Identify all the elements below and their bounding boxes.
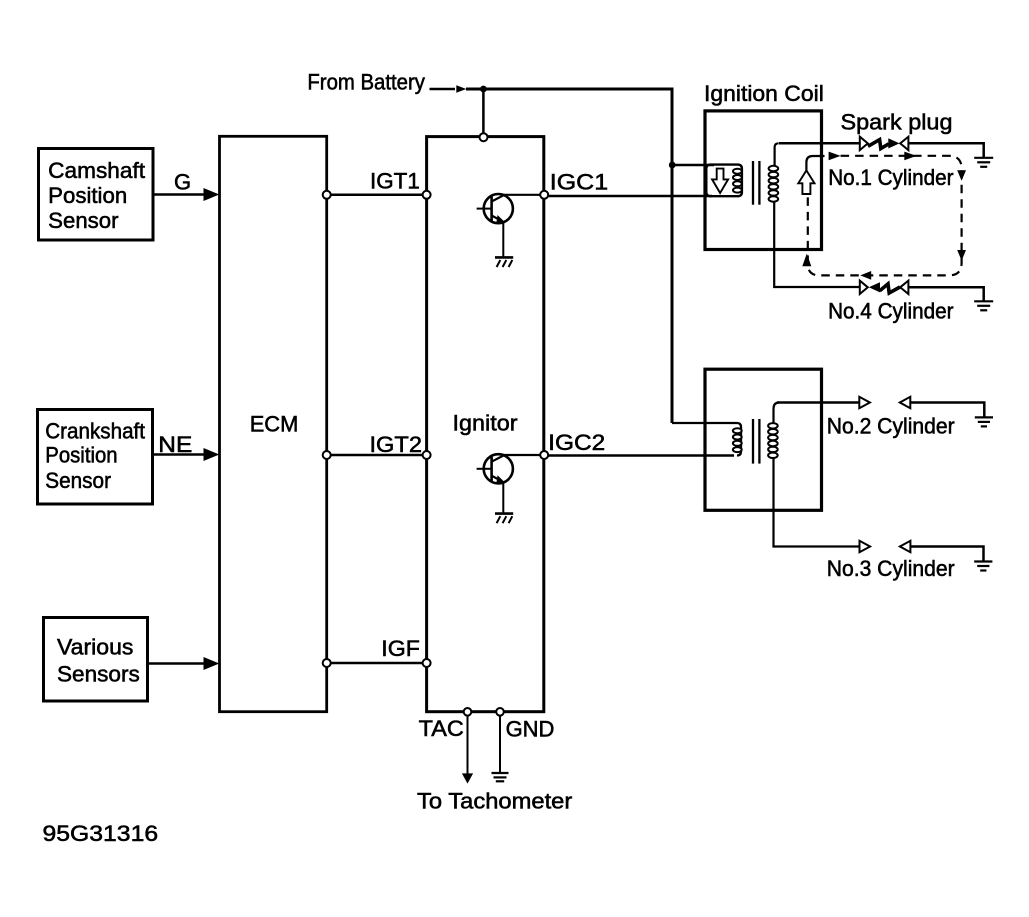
Ignitor box U2 <box>427 137 544 712</box>
svg-text:Sensor: Sensor <box>45 468 111 493</box>
Crankshaft Position Sensor label <box>45 418 145 493</box>
svg-text:IGC1: IGC1 <box>550 169 608 194</box>
wire no.2 to ground <box>910 403 984 418</box>
arrowhead into ECM (NE) <box>204 448 220 461</box>
TAC label <box>419 716 464 741</box>
wire battery feed top <box>466 89 672 423</box>
terminal GND <box>496 708 504 716</box>
IGC2 label <box>548 430 605 455</box>
wire GND <box>499 716 501 773</box>
terminal TAC <box>464 708 472 716</box>
coil1 secondary winding <box>774 143 860 287</box>
coil2 secondary winding <box>774 403 860 547</box>
Various Sensors box <box>44 618 148 702</box>
terminal ECM IGT2 <box>323 451 331 459</box>
transformer core T2 <box>752 419 754 464</box>
svg-text:Camshaft: Camshaft <box>48 158 145 183</box>
svg-text:Sensor: Sensor <box>48 208 118 233</box>
arrowhead loop bottom left <box>860 271 871 280</box>
terminal ECM IGT1 <box>323 191 331 199</box>
coil1 primary winding <box>706 165 742 197</box>
From Battery label <box>307 70 425 95</box>
Camshaft Position Sensor label <box>48 158 145 233</box>
arrowhead spark path 2 <box>904 152 916 161</box>
spark current up arrow (coil1) <box>798 170 814 194</box>
svg-text:95G31316: 95G31316 <box>43 821 159 846</box>
svg-text:G: G <box>174 169 191 194</box>
GND label <box>506 716 555 741</box>
wire Q1 collector to IGC1 <box>501 194 541 196</box>
svg-text:IGT2: IGT2 <box>370 432 423 457</box>
wire coil1 primary feed <box>672 164 714 167</box>
wire secondary2 to spark plug no.2 <box>777 401 859 404</box>
Various Sensors label <box>57 635 140 687</box>
wire NE <box>153 453 206 456</box>
terminal ignitor B+ <box>480 133 488 141</box>
terminal ignitor IGF <box>423 659 431 667</box>
terminal ignitor IGT2 <box>423 451 431 459</box>
svg-text:No.3 Cylinder: No.3 Cylinder <box>827 556 955 581</box>
svg-text:No.4 Cylinder: No.4 Cylinder <box>828 299 953 324</box>
arrowhead loop right down 2 <box>957 250 966 261</box>
ground no.2 <box>975 417 993 426</box>
Ignitor label <box>453 410 518 435</box>
svg-text:TAC: TAC <box>419 716 464 741</box>
arrowhead from battery <box>456 85 466 93</box>
wire from battery dash <box>430 88 456 91</box>
terminal ECM IGF <box>323 659 331 667</box>
wire no.4 to ground <box>908 287 983 300</box>
svg-text:To Tachometer: To Tachometer <box>417 788 572 813</box>
wire IGT2 <box>327 454 427 457</box>
terminal IGC1 <box>540 191 548 199</box>
arrowhead to tachometer <box>462 773 473 783</box>
svg-text:Crankshaft: Crankshaft <box>45 418 145 443</box>
svg-text:No.1 Cylinder: No.1 Cylinder <box>828 165 953 190</box>
wire various sensors <box>148 662 206 665</box>
wire no.3 to ground <box>910 547 983 562</box>
svg-text:GND: GND <box>506 716 555 741</box>
transformer core T1 <box>752 161 754 205</box>
ground Q1 <box>495 257 513 267</box>
svg-text:IGF: IGF <box>381 636 420 661</box>
svg-text:Various: Various <box>57 635 133 660</box>
ground GND <box>492 773 509 781</box>
arrowhead into ECM (various) <box>204 657 220 670</box>
transistor Q1 <box>477 194 513 223</box>
IGC1 label <box>550 169 608 194</box>
spark plug no.3 gap <box>860 541 911 552</box>
wire IGT1 <box>327 194 427 197</box>
svg-text:IGC2: IGC2 <box>548 430 605 455</box>
wire Q2 emitter <box>502 481 504 513</box>
IGF label <box>381 636 420 661</box>
transistor Q2 <box>477 454 513 483</box>
terminal IGC2 <box>540 451 548 459</box>
node G label <box>174 169 191 194</box>
junction battery/ignitor <box>480 86 487 93</box>
Camshaft Position Sensor box <box>39 149 154 241</box>
spark plug no.1 gap <box>860 137 909 150</box>
ground no.4 <box>974 301 993 310</box>
No.2 Cylinder label <box>827 414 955 439</box>
svg-text:Ignitor: Ignitor <box>453 410 518 435</box>
IGT2 label <box>370 432 423 457</box>
No.3 Cylinder label <box>827 556 955 581</box>
svg-text:Ignition Coil: Ignition Coil <box>704 81 824 106</box>
svg-text:IGT1: IGT1 <box>370 169 420 194</box>
ground no.1 <box>974 158 993 167</box>
svg-text:NE: NE <box>158 432 192 457</box>
svg-text:No.2 Cylinder: No.2 Cylinder <box>827 414 955 439</box>
svg-text:Position: Position <box>48 183 127 208</box>
svg-text:Position: Position <box>45 442 117 467</box>
wire TAC <box>467 716 469 774</box>
ignition coil T2 box <box>705 369 822 510</box>
IGT1 label <box>370 169 420 194</box>
wire Q2 collector to IGC2 <box>501 454 541 456</box>
wire G <box>153 193 205 196</box>
wire secondary1 to spark plug no.1 <box>779 142 860 145</box>
No.1 Cylinder label <box>828 165 953 190</box>
ground Q2 <box>495 514 513 524</box>
wire IGC1 to coil1 primary <box>548 195 712 198</box>
wire battery to ignitor top <box>482 89 485 133</box>
figure number 95G31316 <box>43 821 159 846</box>
Ignition Coil label <box>704 81 824 106</box>
ignition coil T1 box <box>705 111 822 250</box>
wire IGC2 to coil2 primary <box>548 454 734 457</box>
arrowhead into ECM (G) <box>204 188 220 201</box>
arrowhead loop left up <box>802 254 811 267</box>
ECM box U1 <box>220 136 327 711</box>
wire Q1 emitter <box>502 221 504 257</box>
svg-text:From Battery: From Battery <box>307 70 425 95</box>
wire no.1 to ground <box>908 143 983 157</box>
ECM label <box>250 412 299 437</box>
coil2 primary winding <box>672 423 741 456</box>
spark plug no.2 gap <box>859 397 910 408</box>
Crankshaft Position Sensor box <box>38 410 153 505</box>
svg-text:Sensors: Sensors <box>57 662 140 687</box>
Spark plug label <box>841 109 953 134</box>
junction coil1 feed <box>669 162 676 169</box>
arrowhead spark path 1 <box>829 152 841 161</box>
spark plug no.4 gap <box>860 281 909 294</box>
node NE label <box>158 432 192 457</box>
dashed spark current loop <box>808 156 962 276</box>
coil1 primary current arrow (down) <box>712 169 728 193</box>
svg-text:ECM: ECM <box>250 412 299 437</box>
arrowhead loop right down 1 <box>957 170 966 181</box>
wire IGF <box>327 662 427 665</box>
terminal ignitor IGT1 <box>423 191 431 199</box>
svg-text:Spark plug: Spark plug <box>841 109 953 134</box>
No.4 Cylinder label <box>828 299 953 324</box>
To Tachometer label <box>417 788 572 813</box>
wire spark path exit (solid) <box>806 156 824 171</box>
ground no.3 <box>974 562 992 571</box>
